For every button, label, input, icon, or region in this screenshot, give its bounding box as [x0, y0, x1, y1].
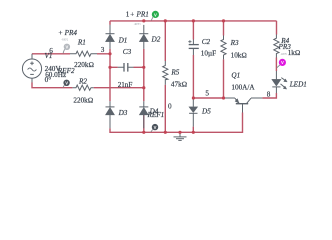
wire net 0 bottom rail — [110, 85, 243, 133]
resistor R4 — [274, 35, 279, 58]
svg-text:10kΩ: 10kΩ — [231, 51, 247, 59]
probe PR3 — [277, 59, 286, 68]
svg-text:5: 5 — [205, 90, 209, 98]
svg-text:10µF: 10µF — [201, 49, 216, 57]
svg-text:0°: 0° — [45, 76, 52, 84]
svg-text:V: V — [281, 60, 284, 65]
svg-text:R3: R3 — [230, 39, 239, 47]
svg-text:D2: D2 — [151, 35, 161, 43]
svg-text:V: V — [65, 81, 68, 86]
wire net 3 column — [110, 49, 118, 101]
resistor R1 — [70, 51, 97, 56]
diode D2 — [139, 25, 148, 49]
resistor R2 — [72, 85, 93, 90]
diode D3 — [106, 101, 115, 128]
wire net 6 — [32, 53, 110, 55]
wire net 1 top rail — [110, 21, 277, 61]
probe REF1 — [151, 124, 158, 132]
LED LED1 — [272, 71, 287, 93]
svg-text:1nF: 1nF — [121, 81, 132, 89]
svg-text:+ PR1: + PR1 — [130, 10, 149, 18]
svg-text:D5: D5 — [201, 108, 211, 116]
svg-text:3: 3 — [101, 46, 105, 54]
wire net 8 — [262, 58, 276, 99]
svg-text:47kΩ: 47kΩ — [171, 80, 187, 88]
svg-text:R2: R2 — [78, 77, 87, 85]
transistor Q1 — [225, 98, 263, 113]
svg-text:Q1: Q1 — [231, 71, 240, 79]
probe REF2 — [63, 80, 70, 88]
svg-text:D1: D1 — [118, 37, 128, 45]
svg-text:V: V — [66, 45, 69, 50]
svg-text:100A/A: 100A/A — [231, 83, 255, 91]
resistor R3 — [221, 36, 226, 60]
diode D5 — [189, 98, 197, 127]
probe PR1 — [151, 11, 159, 21]
svg-text:8: 8 — [267, 91, 271, 99]
wire net 2 — [32, 49, 144, 101]
diode D1 — [106, 25, 115, 49]
svg-text:V1: V1 — [45, 52, 53, 60]
svg-text:+ PR4: + PR4 — [58, 29, 77, 37]
capacitor C2 — [188, 40, 199, 56]
svg-text:-REF2: -REF2 — [61, 39, 69, 42]
svg-text:V: V — [154, 125, 157, 130]
svg-text:1kΩ: 1kΩ — [288, 49, 301, 57]
svg-text:R5: R5 — [170, 68, 179, 76]
svg-text:V: V — [154, 12, 157, 17]
svg-text:-REF1: -REF1 — [134, 23, 142, 26]
resistor R5 — [163, 61, 168, 85]
svg-text:LED1: LED1 — [289, 80, 307, 88]
svg-text:D3: D3 — [118, 109, 128, 117]
ground — [174, 132, 187, 140]
AC source V1 — [22, 54, 41, 83]
svg-text:R1: R1 — [77, 39, 86, 47]
svg-text:220kΩ: 220kΩ — [74, 61, 94, 69]
svg-text:C3: C3 — [123, 48, 132, 56]
probe PR4 — [63, 44, 70, 54]
svg-text:C2: C2 — [202, 38, 211, 46]
junction dots — [108, 19, 225, 134]
svg-text:REF1: REF1 — [147, 111, 165, 119]
svg-text:0: 0 — [168, 103, 172, 111]
wire net 5 — [193, 55, 223, 98]
capacitor C3 — [118, 63, 134, 72]
svg-text:220kΩ: 220kΩ — [73, 96, 93, 104]
diode D4 — [139, 101, 148, 128]
